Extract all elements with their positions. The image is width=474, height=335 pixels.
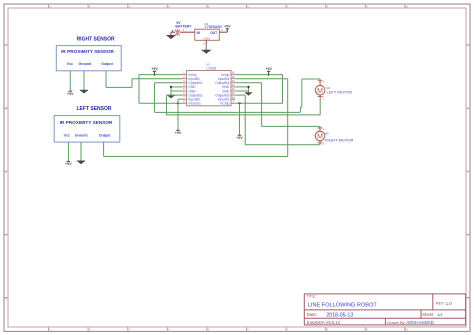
svg-text:IR PROXIMITY SENSOR: IR PROXIMITY SENSOR	[61, 49, 114, 54]
junction at pin 1	[153, 74, 155, 76]
motor M1 LEFT MOTOR	[315, 79, 352, 100]
svg-text:10: 10	[405, 4, 409, 8]
svg-text:10: 10	[405, 328, 409, 332]
ground (regulator GND)	[202, 50, 211, 54]
+5V net flag (regulator output)	[224, 25, 231, 33]
svg-text:OUT: OUT	[210, 31, 217, 35]
wire battery negative	[171, 31, 175, 33]
junction at pin 9	[238, 102, 240, 104]
svg-text:+5V: +5V	[265, 67, 272, 71]
svg-text:1.0: 1.0	[446, 301, 452, 306]
svg-text:Ground: Ground	[78, 62, 91, 66]
wire regulator OUT to +5V	[219, 28, 227, 32]
svg-text:LINE FOLLOWING ROBOT: LINE FOLLOWING ROBOT	[308, 302, 378, 308]
+5V net flag (below chip right)	[236, 135, 243, 140]
wire left sensor Ground	[80, 142, 82, 161]
svg-text:+5V: +5V	[175, 131, 182, 135]
wire pin1 net down-left	[139, 75, 178, 104]
wire pin9 to +5V below	[239, 103, 241, 135]
svg-text:L293D: L293D	[206, 67, 217, 71]
svg-text:Vcc: Vcc	[64, 133, 70, 137]
svg-text:E: E	[467, 296, 469, 300]
ground (left sensor)	[77, 161, 85, 164]
title block	[304, 294, 465, 325]
wire regulator GND pin 2	[203, 40, 206, 50]
+5V net flag (chip pin 1)	[151, 67, 158, 75]
wire OutputB1 to left motor	[155, 79, 320, 112]
svg-text:1/1: 1/1	[437, 312, 443, 317]
svg-text:GND: GND	[204, 37, 212, 41]
svg-text:RIGHT SENSOR: RIGHT SENSOR	[77, 36, 115, 42]
svg-text:VChip: VChip	[220, 102, 229, 106]
svg-text:REV:: REV:	[436, 302, 445, 306]
svg-text:+5V: +5V	[236, 136, 243, 140]
wire left sensor Output to L293D InputB4	[104, 79, 288, 157]
svg-text:Vcc: Vcc	[67, 62, 73, 66]
svg-text:Output: Output	[101, 62, 113, 66]
svg-text:M: M	[317, 134, 323, 141]
ground (battery negative)	[167, 32, 176, 39]
svg-text:E: E	[5, 296, 7, 300]
svg-text:Ground: Ground	[75, 133, 88, 137]
wire to pin8 Vmotors	[178, 102, 182, 104]
junction at pin 16	[268, 74, 270, 76]
ground (chip left)	[168, 96, 175, 99]
+5V net flag (right sensor)	[67, 91, 74, 96]
svg-text:TITLE:: TITLE:	[307, 295, 317, 299]
svg-text:A: A	[467, 43, 469, 47]
left IR proximity sensor module U4	[54, 116, 120, 143]
wire chip GND pins 13,12	[236, 87, 249, 93]
svg-text:+5V: +5V	[67, 92, 74, 96]
label RIGHT SENSOR	[77, 36, 115, 42]
svg-text:Date:: Date:	[307, 312, 317, 317]
svg-text:IR PROXIMITY SENSOR: IR PROXIMITY SENSOR	[60, 120, 113, 125]
wire OutputB2 to left motor bottom	[167, 95, 321, 115]
svg-text:Output: Output	[99, 133, 111, 137]
wire right sensor Vcc	[69, 71, 71, 91]
svg-text:2018-05-13: 2018-05-13	[326, 312, 353, 318]
svg-text:RIGHT MOTOR: RIGHT MOTOR	[325, 138, 353, 143]
wire pin16 Vchip to +5V net	[236, 75, 283, 104]
wire OutputB3 to right motor bottom	[236, 95, 320, 145]
junction at pin 4	[170, 86, 172, 88]
svg-text:B: B	[5, 107, 7, 111]
svg-text:ARSH AHMAD: ARSH AHMAD	[407, 320, 434, 325]
wire left sensor Vcc	[67, 142, 69, 161]
right IR proximity sensor module U3	[56, 46, 121, 71]
svg-text:B: B	[467, 107, 469, 111]
svg-text:+5V: +5V	[151, 67, 158, 71]
wire +5V to L293D pin1 Vchip	[139, 74, 182, 76]
wire right sensor Ground	[83, 71, 85, 91]
voltage regulator U2 L7805ABV	[195, 22, 223, 41]
wire battery to regulator IN	[180, 28, 195, 32]
svg-text:LEFT MOTOR: LEFT MOTOR	[327, 90, 353, 95]
svg-text:+5V: +5V	[224, 25, 231, 29]
junction at pin 13	[247, 86, 249, 88]
svg-text:+5V: +5V	[65, 162, 72, 166]
svg-text:LEFT SENSOR: LEFT SENSOR	[76, 106, 111, 112]
svg-text:M2: M2	[325, 132, 329, 136]
wire right sensor Output to L293D InputB1	[106, 71, 182, 88]
wire to pin7 InputB2	[178, 99, 182, 130]
+5V net flag (below chip left)	[175, 130, 182, 135]
motor M2 RIGHT MOTOR	[315, 126, 353, 145]
label LEFT SENSOR	[76, 106, 111, 112]
ground (right sensor)	[80, 90, 88, 93]
+5V net flag (left sensor)	[65, 161, 72, 166]
svg-text:Vmotors: Vmotors	[188, 102, 201, 106]
+5V net flag (chip pin 16)	[265, 67, 272, 75]
svg-text:A: A	[5, 43, 7, 47]
svg-text:M: M	[317, 88, 323, 95]
wire OutputB4 to right motor top	[236, 83, 320, 127]
battery BT1 9V	[172, 21, 192, 36]
motor driver U1 L293D	[182, 62, 236, 106]
junction at pin 8 Vmotors	[177, 102, 179, 104]
svg-text:EasyEDA V5.5.12: EasyEDA V5.5.12	[307, 320, 341, 325]
ground (chip right)	[245, 93, 252, 96]
svg-text:Sheet:: Sheet:	[422, 312, 434, 317]
wire chip GND pins 4,5	[171, 87, 182, 96]
svg-text:Drawn By:: Drawn By:	[387, 320, 405, 325]
